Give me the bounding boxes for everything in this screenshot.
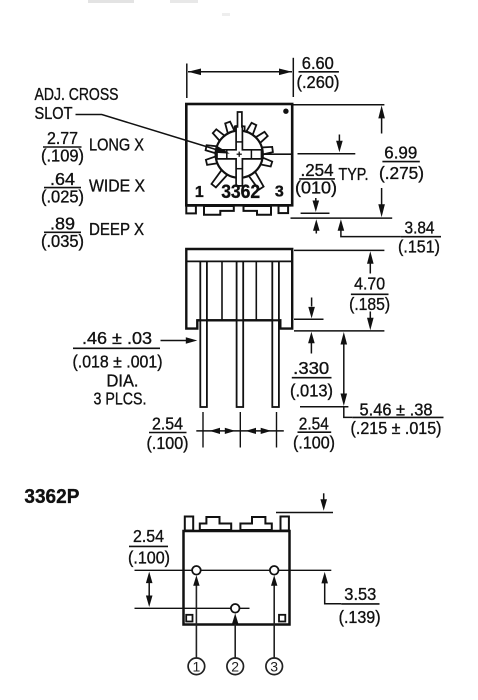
- rotor circle: [216, 131, 263, 178]
- terminal corner square left: [186, 206, 196, 214]
- rotor gear teeth: [206, 122, 273, 190]
- svg-text:4.70: 4.70: [354, 274, 385, 294]
- bottom view body outline: [184, 531, 290, 625]
- svg-text:(.215 ± .015): (.215 ± .015): [351, 418, 442, 438]
- svg-text:TYP.: TYP.: [339, 164, 369, 184]
- foot bottom extension line: [294, 330, 384, 332]
- terminal corner square right: [279, 206, 289, 213]
- bottom view corner square top-left: [185, 517, 193, 531]
- svg-text:6.99: 6.99: [384, 143, 417, 163]
- marking 3362: [221, 181, 260, 203]
- svg-text:.330: .330: [293, 358, 329, 378]
- svg-text:6.60: 6.60: [302, 53, 334, 73]
- svg-text:2.54: 2.54: [152, 414, 183, 434]
- tab bottom extension line: [291, 217, 393, 219]
- index dot: [283, 109, 288, 114]
- bottom view inner corner square bottom-left: [186, 615, 192, 622]
- dim .330 arrows: [308, 298, 315, 354]
- shelf extension line: [294, 318, 324, 320]
- side view shelf line: [197, 319, 280, 321]
- label 3.53: [339, 584, 381, 627]
- pin 2 callout arrow: [232, 613, 238, 658]
- dim 4.70 top extension: [294, 249, 384, 251]
- svg-text:ADJ. CROSS: ADJ. CROSS: [35, 84, 119, 104]
- pin 3 number: [266, 658, 283, 675]
- arrow to tab gap upper: [313, 198, 320, 212]
- top view body outline: [186, 104, 292, 205]
- bottom view tab 1: [200, 517, 231, 530]
- svg-text:WIDE X: WIDE X: [89, 176, 145, 196]
- label ADJ. CROSS SLOT: [35, 84, 119, 123]
- svg-text:2: 2: [231, 658, 239, 674]
- svg-text:3: 3: [275, 184, 284, 201]
- svg-text:3362: 3362: [221, 181, 260, 203]
- marking 1: [195, 184, 204, 201]
- svg-text:(.100): (.100): [128, 548, 170, 568]
- svg-text:.46 ± .03: .46 ± .03: [82, 328, 152, 348]
- svg-text:(.025): (.025): [41, 186, 84, 206]
- svg-text:3362P: 3362P: [24, 486, 79, 508]
- terminal tab A: [204, 206, 234, 215]
- label 2.54 left: [147, 414, 189, 453]
- pin row 1-3 centre line: [135, 569, 332, 571]
- leader line to cross slot: [76, 115, 230, 154]
- side view cap line: [186, 260, 292, 262]
- bottom view tab 2: [240, 517, 271, 530]
- dim 6.60 extension lines: [187, 58, 293, 98]
- svg-text:3 PLCS.: 3 PLCS.: [94, 389, 147, 409]
- faint scan artifact top: [88, 0, 230, 16]
- pin spacing arrow line: [196, 428, 283, 434]
- pin 1 callout arrow: [193, 575, 199, 658]
- heading 3362P: [24, 486, 79, 508]
- svg-text:(.013): (.013): [290, 381, 333, 401]
- label 2.54 right: [293, 414, 335, 453]
- bottom view corner square top-right: [281, 517, 289, 531]
- side view body outline: [186, 249, 292, 329]
- svg-text:3: 3: [270, 658, 278, 674]
- dim 6.60 arrow line: [188, 69, 292, 76]
- pin 3 hole: [270, 566, 279, 575]
- adjustment cross slot: [217, 126, 262, 186]
- pin 2 number: [227, 658, 244, 675]
- slot centre line to body edge: [262, 153, 293, 155]
- label .330: [290, 358, 333, 401]
- svg-text:DEEP X: DEEP X: [89, 219, 144, 239]
- pin 3 callout arrow: [271, 575, 277, 658]
- svg-text:SLOT: SLOT: [35, 103, 73, 123]
- bottom view inner corner square bottom-right: [279, 615, 285, 622]
- svg-text:1: 1: [193, 658, 201, 674]
- arrow to tab bottom: [313, 219, 320, 233]
- terminal tab B: [244, 206, 272, 215]
- svg-text:(.035): (.035): [41, 231, 84, 251]
- svg-text:(.260): (.260): [297, 72, 340, 92]
- slot line extension: [298, 153, 356, 155]
- arrow to pin diameter: [161, 337, 198, 344]
- label 6.99: [379, 143, 424, 184]
- svg-text:(.151): (.151): [398, 237, 440, 257]
- cross slot ticks: [227, 142, 252, 169]
- svg-text:(.100): (.100): [147, 433, 189, 453]
- tab gap line upper: [301, 212, 330, 214]
- dim 3.84 leader: [338, 219, 401, 236]
- svg-text:(010): (010): [295, 178, 337, 198]
- arrow to tab top: [320, 493, 327, 510]
- label 6.60: [297, 53, 340, 92]
- dim 5.46 arrow: [341, 332, 353, 417]
- label 2.77 LONG X: [41, 128, 144, 166]
- svg-text:3.84: 3.84: [405, 218, 435, 238]
- label 2.54 bottom view: [128, 526, 170, 568]
- svg-text:(.185): (.185): [349, 294, 390, 314]
- svg-text:1: 1: [195, 184, 204, 201]
- label 3.84: [398, 218, 441, 257]
- pin tip extension line: [300, 406, 348, 408]
- svg-text:(.100): (.100): [293, 432, 335, 452]
- label .64 WIDE X: [41, 169, 145, 206]
- svg-text:3.53: 3.53: [344, 584, 376, 604]
- svg-text:(.139): (.139): [339, 607, 381, 627]
- label 4.70: [349, 274, 390, 315]
- label 5.46: [351, 400, 444, 438]
- svg-text:(.275): (.275): [379, 163, 424, 183]
- pin 2 hole: [231, 604, 240, 613]
- top lug shoulders: [235, 126, 245, 131]
- pin 1 number: [188, 658, 205, 675]
- svg-text:2.54: 2.54: [133, 526, 164, 546]
- label .254 (010) TYP: [295, 160, 369, 198]
- dim 6.99 top extension: [294, 104, 385, 106]
- side view pins 1 2 3: [200, 261, 279, 407]
- pin centre extension lines: [203, 412, 277, 448]
- tab top extension line: [276, 512, 333, 514]
- pin 2 centre line: [135, 607, 250, 609]
- svg-text:5.46 ± .38: 5.46 ± .38: [360, 400, 433, 420]
- top lug slot tube: [238, 112, 242, 128]
- dim 6.99 arrows: [378, 105, 385, 217]
- label .46 dia: [73, 328, 163, 409]
- label .89 DEEP X: [41, 214, 144, 251]
- side view mould ribs: [222, 261, 256, 320]
- dim 3.53 arrow: [321, 572, 341, 604]
- dim 2.54 bottom arrows: [146, 572, 153, 607]
- svg-text:(.018 ± .001): (.018 ± .001): [73, 352, 163, 372]
- svg-text:LONG X: LONG X: [89, 135, 144, 155]
- marking 3: [275, 184, 284, 201]
- svg-text:(.109): (.109): [41, 146, 84, 166]
- svg-text:DIA.: DIA.: [107, 370, 139, 390]
- pin 1 hole: [192, 566, 201, 575]
- arrow to slot line: [336, 135, 343, 153]
- svg-text:2.54: 2.54: [299, 414, 329, 434]
- dim 4.70 arrows: [367, 251, 374, 330]
